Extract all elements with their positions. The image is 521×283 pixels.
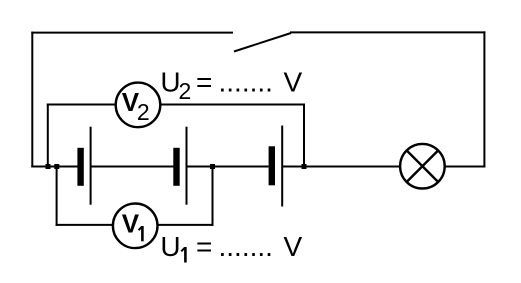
voltmeter V2 (116, 83, 161, 128)
wire: main segment B1 to B2 (91, 166, 174, 168)
svg-text:.......: ....... (219, 67, 273, 98)
wire: voltmeter V1 loop right vertical (212, 167, 214, 226)
svg-text:V: V (284, 67, 303, 98)
wire: main segment from left wall to battery B1 (31, 166, 77, 168)
node: junction dot V1 left on main wire (54, 164, 59, 169)
wire: voltmeter V2 loop left vertical (47, 104, 49, 167)
svg-text:U: U (160, 231, 180, 262)
wire: main segment B2 to B3 (187, 166, 269, 168)
wire: main segment B3 to lamp (283, 166, 401, 168)
wire: voltmeter V1 loop bottom-left horizontal (56, 224, 113, 226)
wire: voltmeter V1 loop left vertical (56, 167, 58, 226)
lamp L1 (400, 144, 445, 189)
wire: top left segment (31, 32, 233, 34)
svg-text:V: V (284, 231, 303, 262)
wire: voltmeter V2 loop top-right horizontal (161, 104, 306, 106)
wire: voltmeter V2 loop right vertical (303, 104, 305, 167)
wire: right horizontal into lamp (445, 166, 485, 168)
switch S1 blade (open) (234, 33, 291, 52)
svg-text:2: 2 (179, 78, 192, 104)
battery B2 thin plate (positive) (186, 127, 188, 205)
battery B1 thin plate (positive) (90, 127, 92, 205)
wire: voltmeter V2 loop top-left horizontal (47, 104, 116, 106)
wire: outer left wall (31, 32, 33, 168)
svg-text:=: = (196, 231, 212, 262)
wire: voltmeter V1 loop bottom-right horizontal (158, 224, 214, 226)
svg-text:2: 2 (137, 99, 150, 125)
svg-text:.......: ....... (219, 231, 273, 262)
wire: top right segment (290, 31, 485, 33)
node: junction dot V2 right on main wire (302, 164, 307, 169)
wire: outer right wall (483, 31, 485, 167)
battery B1 thick plate (negative) (77, 148, 83, 186)
battery B3 thin plate (positive) (281, 126, 283, 207)
node: junction dot V2 left on main wire (46, 164, 51, 169)
svg-text:V: V (122, 209, 140, 239)
battery B2 thick plate (negative) (173, 148, 179, 186)
label U1 subscript "1" (181, 248, 185, 252)
voltmeter V1 (113, 204, 158, 249)
voltmeter V1 subscript "1" (139, 227, 142, 231)
battery B3 thick plate (negative) (269, 146, 275, 185)
svg-text:=: = (196, 67, 212, 98)
label U2 = ....... V (160, 67, 302, 104)
node: junction dot V1 right on main wire (210, 164, 215, 169)
label U1 = ....... V (160, 231, 302, 263)
